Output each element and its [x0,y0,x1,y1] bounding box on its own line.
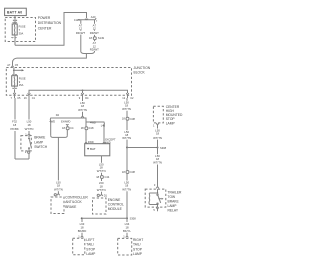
node to CHMSL branch [126,146,167,150]
svg-text:RD/WT: RD/WT [76,31,85,35]
svg-text:WT/TN: WT/TN [54,187,63,191]
svg-text:LAMP: LAMP [166,121,176,125]
wire L50 stop lamp switch to JB [25,98,34,133]
svg-text:C38: C38 [130,170,135,174]
CHMSL pin 1 [153,123,159,127]
svg-text:BRAKE: BRAKE [168,200,180,204]
svg-text:PK/BK: PK/BK [10,127,18,131]
svg-text:BRAKE: BRAKE [34,136,46,140]
splice on 4WD path [81,126,94,130]
JB internal bus to pin C2 [29,89,128,93]
svg-text:BK/RD: BK/RD [78,229,87,233]
splice C38 lower [122,148,136,219]
svg-text:BATT A0: BATT A0 [7,10,22,14]
JB pin C1 from stop lamp switch [24,93,36,100]
svg-text:A7: A7 [7,63,11,67]
svg-text:C5: C5 [17,96,21,100]
svg-text:CONTROLLER: CONTROLLER [65,196,88,200]
svg-text:ENGINE: ENGINE [108,198,121,202]
bus A7 with label C125 [74,15,97,22]
wire PDC to top run [15,13,87,46]
svg-text:BLOCK: BLOCK [134,70,146,74]
svg-text:C44: C44 [105,175,110,179]
splice on EX4WD path [62,126,74,130]
svg-text:LEFT: LEFT [86,238,94,242]
stop lamp switch contact [28,136,31,151]
svg-text:C5: C5 [15,63,19,67]
svg-text:C18: C18 [89,126,94,130]
svg-text:S149: S149 [98,36,105,40]
label power distribution center [38,16,62,31]
label left tail stop lamp [86,238,96,256]
svg-text:JUNCTION: JUNCTION [134,66,151,70]
center high mounted stop lamp dashed box [153,106,163,123]
svg-text:ANTILOCK: ANTILOCK [65,200,82,204]
alternate path loop to ECM [86,122,104,142]
svg-text:EX4WD: EX4WD [61,120,70,124]
svg-text:CONTROL: CONTROL [108,202,124,206]
svg-text:TAIL/: TAIL/ [86,243,94,247]
svg-text:DISTRIBUTION: DISTRIBUTION [38,21,62,25]
svg-text:RD/WT: RD/WT [90,31,99,35]
svg-text:12: 12 [79,26,83,30]
alternate path loop to CAB [49,120,70,138]
splice C38 upper [122,117,136,148]
power distribution center dashed box [5,18,35,42]
junction block dashed outline [6,68,131,96]
label brake lamp switch [34,136,48,149]
label trailer tow brake lamp relay [168,190,183,212]
stop lamp switch pin 2 [25,150,30,154]
svg-text:S308: S308 [130,217,137,221]
svg-text:LAMP: LAMP [168,204,178,208]
label engine control module [108,198,124,211]
svg-text:C1: C1 [32,96,36,100]
svg-text:RIGHT: RIGHT [133,238,143,242]
wire L50 to trailer tow relay [153,148,162,189]
ECM pin D1 [97,194,107,198]
svg-text:SWITCH: SWITCH [34,145,48,149]
splice node S308 [81,217,136,221]
JB pin C5 lower [11,86,22,100]
node D4 split bar [50,113,104,125]
svg-text:4WD: 4WD [90,120,96,124]
svg-text:15A: 15A [19,83,24,87]
wire L63 to left tail lamp [78,218,87,238]
wire L50 from JB pin D4 to split bar [78,98,87,118]
wire F32 fuse 9 to stop lamp switch [10,98,29,159]
svg-text:L40: L40 [101,123,106,127]
wire merge down to junction block [13,52,95,66]
wire BATT to fuse 7 [13,16,17,24]
svg-text:CENTER: CENTER [38,27,52,31]
trailer tow brake lamp relay dashed box [145,189,166,207]
fuse 9 in junction block [12,74,26,87]
JB pin C3 center branch [79,90,89,100]
relay bottom pin [153,207,158,212]
svg-text:LAMP: LAMP [86,252,96,256]
label center high mounted stop lamp [166,105,183,125]
wire A7 left branch [76,20,85,52]
svg-text:12: 12 [93,26,97,30]
svg-text:WT/TN: WT/TN [78,108,87,112]
svg-text:TAIL/: TAIL/ [133,243,141,247]
wire L64 to right tail lamp [123,218,131,238]
svg-text:A40: A40 [91,15,96,19]
label controller antilock brake [65,196,88,209]
svg-text:STOP: STOP [86,247,96,251]
connector on drop [85,19,88,20]
junction block top pin C5 [7,63,18,67]
label except 4WD at BAT pin [105,138,116,145]
controller antilock brake dashed box [51,197,64,214]
splice C44 [96,175,110,194]
svg-text:C38: C38 [130,117,135,121]
CAB pin [54,194,60,196]
svg-text:WT/TN: WT/TN [97,188,106,192]
svg-text:TOW: TOW [168,195,177,199]
stop lamp switch pin 1 [25,132,30,136]
svg-text:FUSE: FUSE [19,25,26,29]
svg-text:C2: C2 [130,96,134,100]
svg-text:WT/TN: WT/TN [122,107,131,111]
left tail stop lamp dashed box [73,238,85,255]
svg-text:WT/TN: WT/TN [97,169,106,173]
relay contact [157,194,164,207]
svg-text:WT/TN: WT/TN [153,161,162,165]
label right tail stop lamp [133,238,143,256]
splice S149 [89,36,105,51]
svg-text:S308: S308 [160,146,167,150]
svg-text:LAMP: LAMP [133,252,143,256]
svg-text:BRAKE: BRAKE [65,205,77,209]
svg-text:D4: D4 [85,96,89,100]
relay coil [149,189,158,204]
svg-text:POWER: POWER [38,16,51,20]
JB pin C2 right [122,93,134,100]
wire A7 right branch [90,20,99,37]
fuse 7 in PDC [12,22,26,35]
svg-text:BAT: BAT [90,147,96,151]
fuse 7 output pin [11,35,16,45]
svg-text:30A: 30A [19,32,24,36]
svg-text:TRAILER: TRAILER [168,190,183,194]
wire L50 to CAB [54,137,63,193]
wire L50 main feed from JB pin C2 [122,98,131,117]
JB internal feed node and arrow [13,68,24,74]
svg-text:STOP: STOP [133,247,143,251]
right tail stop lamp dashed box [118,238,132,255]
svg-text:RELAY: RELAY [168,209,179,213]
svg-text:WT/TN: WT/TN [153,136,162,140]
svg-text:C125: C125 [74,19,80,22]
svg-text:MODULE: MODULE [108,207,123,211]
label junction block [134,66,151,75]
svg-text:WT/TN: WT/TN [122,136,131,140]
svg-text:WT/TN: WT/TN [122,187,131,191]
svg-text:D4: D4 [56,113,60,117]
bat terminal box [85,142,110,156]
wire L50 from bat box to ECM [97,156,106,176]
wire L50 CHMSL drop [153,127,162,148]
svg-text:LAMP: LAMP [34,140,44,144]
engine control module dashed box [93,198,107,214]
battery feed box BATT A0 [5,8,27,15]
svg-text:WT/TN: WT/TN [25,127,34,131]
svg-text:C4: C4 [70,126,74,130]
brake lamp switch dashed box [21,136,31,151]
svg-text:BK/YL: BK/YL [123,229,131,233]
